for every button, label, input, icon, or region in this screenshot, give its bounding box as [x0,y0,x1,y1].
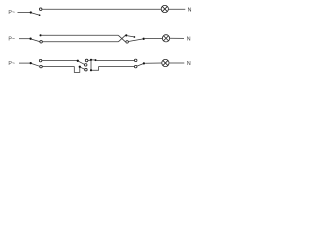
cross switch contact circle c3 [85,68,88,71]
wire crossover X bottom-to-top [118,35,125,42]
cross switch blade from A [79,61,85,64]
wire common to lamp row 2 [145,37,163,39]
wire top exit from bar [92,59,95,61]
wire strap top row 2 [42,34,119,36]
wire lamp to N row 1 [168,8,185,10]
switch S2a blade to bottom contact [31,39,39,42]
switch S3a blade to bottom contact [32,64,40,67]
cross switch blade from E [81,67,85,69]
wire switch to lamp row 1 [42,8,161,10]
wire phase feed row 1 [18,12,31,14]
switch S3a top contact circle [39,59,42,62]
wire strap top row 3 (to cross switch) [42,60,77,62]
svg-text:P~: P~ [8,61,15,67]
node dot A cross-switch top input [77,60,79,62]
svg-text:P~: P~ [8,10,15,16]
switch S2b blade bottom contact to common [128,39,143,42]
switch S3b blade bottom contact to common [137,64,144,67]
switch S2a bottom contact circle [40,41,43,44]
node feed dot row 3 [30,62,32,64]
cross switch contact circle c2 [84,64,87,67]
switch S3a bottom contact circle [40,65,43,68]
node feed dot row 2 [29,38,31,40]
switch S2b top contact dot [125,34,127,36]
wire bottom exit from bar with step up [92,67,135,71]
switch S1 terminal circle [39,8,42,11]
switch S2b open blade tip dot [134,36,136,38]
node bar bottom dot [90,69,92,71]
wire strap bottom row 3 with under-pass dip [42,67,80,73]
wire strap bottom row 2 [42,41,118,43]
node top exit dot [95,59,97,61]
wire common to lamp row 3 [145,62,162,64]
switch S3b bottom contact circle [134,65,137,68]
wire crossover X top-to-bottom [118,35,125,42]
svg-text:N: N [188,8,192,14]
cross switch contact circle c1 [85,59,88,62]
wire lamp to N row 2 [170,37,184,39]
switch S2b open blade from top contact [127,36,134,37]
switch S2b bottom contact circle [126,41,129,44]
wire vertical bar of cross switch [90,60,92,71]
node common dot S2b [143,38,145,40]
switch S1 blade (open) [32,13,40,15]
switch S1 blade tip dot [39,14,41,16]
wire phase feed row 3 [19,62,30,64]
svg-text:P~: P~ [8,36,15,42]
wire phase feed row 2 [19,38,30,40]
switch S3b top contact circle [134,59,137,62]
wire link c1 to bar [88,59,92,61]
node bar top dot [90,59,92,61]
lamp E1 [161,5,168,12]
wire top exit to right switch [96,59,134,61]
lamp E2 [162,35,169,42]
node dot E cross-switch bottom input [79,66,81,68]
node feed dot row 1 [30,11,32,13]
switch S2a top contact dot [40,34,42,36]
wire lamp to N row 3 [169,62,184,64]
svg-text:N: N [187,61,191,67]
node common dot S3b [143,62,145,64]
svg-text:N: N [187,36,191,42]
lamp E3 [162,59,169,66]
